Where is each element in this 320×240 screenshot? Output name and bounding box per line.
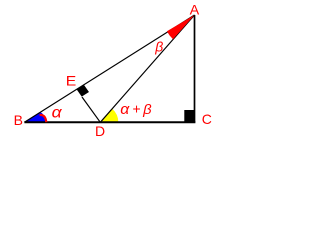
- svg-text:A: A: [190, 1, 200, 17]
- svg-text:C: C: [202, 111, 212, 127]
- svg-text:β: β: [142, 102, 152, 117]
- right-angle square at C (black): [184, 110, 194, 122]
- wire: line B to C (base): [24, 121, 195, 123]
- wire: line B to A (hypotenuse through E): [24, 15, 194, 122]
- right-angle square at E (black, rotated along AB): [77, 85, 89, 97]
- svg-text:β: β: [154, 38, 163, 54]
- svg-text:B: B: [14, 112, 23, 128]
- svg-text:α: α: [120, 101, 129, 118]
- wire: line A to D: [100, 15, 194, 122]
- angle sector at B (blue fill): [24, 112, 45, 122]
- svg-text:α: α: [52, 104, 63, 121]
- wire: line D to E (altitude): [82, 97, 100, 122]
- angle sector at D (yellow fill): [100, 109, 118, 123]
- red arc of angle marker at B (drawn over lines): [40, 115, 47, 122]
- svg-text:E: E: [66, 73, 77, 89]
- angle sector at A (red, between AB and AD, drawn over lines): [167, 15, 195, 39]
- svg-text:D: D: [95, 123, 105, 139]
- wire: line A to C (vertical): [194, 15, 196, 122]
- svg-text:+: +: [132, 101, 140, 117]
